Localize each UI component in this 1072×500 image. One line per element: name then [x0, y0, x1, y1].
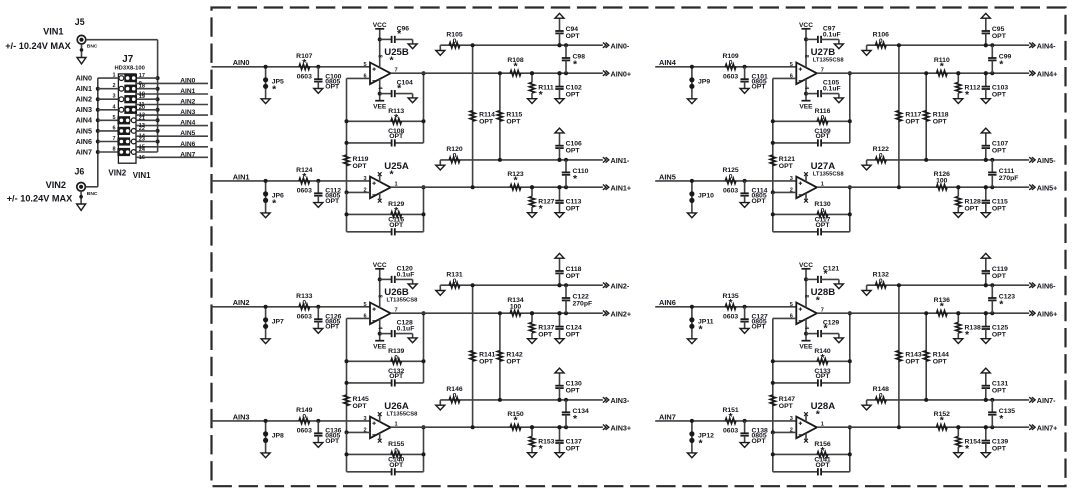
svg-text:0: 0: [879, 153, 883, 160]
ground: [555, 339, 564, 344]
svg-text:AIN7: AIN7: [659, 412, 676, 421]
svg-text:C107: C107: [992, 141, 1008, 148]
svg-text:U25A: U25A: [384, 161, 409, 172]
svg-text:OPT: OPT: [389, 373, 404, 380]
svg-text:JP10: JP10: [698, 192, 714, 199]
node AIN5: [659, 172, 676, 181]
svg-text:R145: R145: [353, 396, 369, 403]
svg-text:0: 0: [453, 153, 457, 160]
svg-text:OPT: OPT: [752, 324, 767, 331]
ground: [740, 329, 749, 334]
svg-text:7: 7: [112, 136, 115, 142]
svg-text:8: 8: [377, 55, 383, 58]
capacitor C95: [982, 18, 1007, 47]
svg-text:OPT: OPT: [479, 118, 494, 125]
svg-text:+/- 10.24V MAX: +/- 10.24V MAX: [5, 41, 71, 51]
svg-text:OPT: OPT: [779, 403, 794, 410]
svg-text:OPT: OPT: [965, 206, 980, 213]
svg-text:8: 8: [377, 295, 383, 298]
border frame: [212, 8, 1066, 487]
wire: [771, 190, 797, 231]
node AIN4: [659, 58, 677, 67]
junction: [530, 283, 562, 315]
svg-text:0.1uF: 0.1uF: [823, 86, 841, 93]
resistor R105: [440, 32, 603, 48]
svg-text:C139: C139: [992, 439, 1008, 446]
svg-text:R144: R144: [933, 351, 949, 358]
ground: [77, 44, 86, 64]
capacitor C140: [347, 457, 424, 476]
svg-text:OPT: OPT: [816, 373, 831, 380]
svg-text:OPT: OPT: [566, 388, 581, 395]
svg-text:AIN7: AIN7: [180, 151, 195, 158]
node AIN3 row: [180, 109, 195, 116]
resistor R128: [956, 185, 981, 213]
node VIN1 max: [5, 41, 71, 51]
capacitor C104: [378, 80, 413, 98]
resistor R132: [867, 272, 1030, 288]
ground: [740, 203, 749, 208]
svg-text:0: 0: [821, 207, 825, 214]
resistor R133: [296, 293, 312, 320]
svg-text:4: 4: [377, 326, 383, 329]
svg-text:5: 5: [790, 302, 793, 308]
svg-text:R121: R121: [779, 156, 795, 163]
capacitor C138: [740, 419, 768, 445]
capacitor C137: [555, 425, 582, 453]
earth: [555, 128, 564, 133]
svg-text:R142: R142: [506, 351, 522, 358]
VEE: [373, 341, 387, 351]
wire AIN5 input: [655, 180, 796, 182]
svg-text:0603: 0603: [723, 73, 738, 80]
node AIN7-: [1029, 396, 1056, 405]
jumper JP10: [689, 179, 714, 213]
svg-text:0: 0: [821, 114, 825, 121]
svg-text:17: 17: [139, 73, 145, 79]
svg-text:AIN3: AIN3: [76, 105, 92, 114]
resistor R145: [344, 381, 369, 433]
node AIN4-: [1029, 42, 1056, 51]
resistor R147: [770, 381, 795, 433]
node AIN5-: [1029, 156, 1056, 165]
resistor R137: [529, 311, 554, 339]
node AIN7: [659, 412, 676, 421]
wire AIN7 input: [655, 420, 796, 422]
capacitor C94: [555, 18, 580, 47]
svg-text:0603: 0603: [723, 313, 738, 320]
svg-text:20: 20: [139, 105, 145, 111]
svg-text:C95: C95: [992, 26, 1005, 33]
node AIN3+: [603, 424, 631, 433]
capacitor C116: [347, 217, 424, 236]
node AIN3-: [603, 396, 630, 405]
header J7 row 2: [98, 83, 208, 97]
jumper JP12: [689, 419, 714, 453]
resistor R115: [497, 71, 522, 162]
svg-text:AIN0-: AIN0-: [611, 42, 630, 51]
capacitor C134: [562, 398, 589, 429]
svg-text:OPT: OPT: [992, 92, 1007, 99]
svg-text:J7: J7: [122, 54, 133, 65]
ground: [687, 453, 696, 458]
capacitor C126: [314, 305, 342, 331]
connector J5: [75, 17, 98, 50]
svg-text:OPT: OPT: [752, 84, 767, 91]
ground: [862, 400, 871, 410]
svg-text:R143: R143: [905, 351, 921, 358]
resistor R131: [440, 272, 603, 288]
svg-text:VCC: VCC: [799, 22, 813, 29]
capacitor C109: [773, 128, 850, 147]
resistor R107: [296, 53, 312, 80]
svg-text:J5: J5: [75, 17, 85, 27]
VEE: [799, 341, 813, 351]
resistor R140: [771, 348, 852, 364]
earth: [981, 368, 990, 373]
header J7 row 7: [98, 136, 208, 150]
connector J7: [115, 54, 145, 163]
resistor R121: [770, 141, 795, 193]
svg-text:AIN5-: AIN5-: [1037, 156, 1056, 165]
svg-text:0603: 0603: [723, 427, 738, 434]
svg-text:AIN7-: AIN7-: [1037, 396, 1056, 405]
capacitor C99: [988, 43, 1011, 75]
svg-text:3: 3: [790, 176, 793, 182]
svg-text:0: 0: [729, 174, 733, 181]
header J7 row 3: [98, 94, 208, 108]
svg-text:6: 6: [112, 125, 115, 131]
ground: [862, 160, 871, 170]
svg-text:AIN3+: AIN3+: [611, 424, 632, 433]
capacitor C113: [555, 185, 581, 213]
svg-text:AIN6+: AIN6+: [1037, 310, 1058, 319]
resistor R154: [956, 425, 981, 455]
capacitor C123: [988, 283, 1015, 315]
ground: [954, 339, 963, 344]
svg-text:4: 4: [377, 86, 383, 89]
ground: [834, 44, 843, 49]
svg-text:U28A: U28A: [811, 401, 836, 412]
svg-text:C106: C106: [566, 141, 582, 148]
VCC: [799, 262, 813, 269]
svg-text:OPT: OPT: [933, 358, 948, 365]
svg-text:OPT: OPT: [992, 446, 1007, 453]
wire AIN0+: [391, 72, 603, 74]
svg-text:AIN4: AIN4: [180, 120, 195, 127]
wire: [773, 318, 797, 383]
svg-text:AIN1+: AIN1+: [611, 184, 632, 193]
wire: [848, 425, 852, 472]
svg-text:AIN0: AIN0: [180, 77, 195, 84]
VEE: [799, 101, 813, 111]
svg-text:R128: R128: [965, 199, 981, 206]
ground: [981, 339, 990, 344]
svg-text:OPT: OPT: [389, 462, 404, 469]
resistor R134: [507, 297, 523, 316]
header J7 row 8: [98, 147, 208, 161]
ground: [555, 213, 564, 218]
node AIN1+: [603, 184, 631, 193]
svg-text:OPT: OPT: [506, 118, 521, 125]
svg-text:OPT: OPT: [353, 403, 368, 410]
svg-text:5: 5: [790, 62, 793, 68]
connector J6: [75, 166, 98, 197]
svg-text:OPT: OPT: [752, 198, 767, 205]
op-amp U25B: [363, 29, 408, 101]
ground: [687, 99, 696, 104]
ground: [981, 99, 990, 104]
resistor R138: [956, 311, 981, 341]
resistor R146: [440, 386, 603, 402]
capacitor C97: [804, 25, 841, 44]
svg-text:C102: C102: [566, 85, 582, 92]
svg-text:AIN1: AIN1: [180, 88, 195, 95]
svg-text:OPT: OPT: [566, 92, 581, 99]
node AIN2 row: [180, 99, 195, 106]
svg-text:VCC: VCC: [799, 262, 813, 269]
svg-text:OPT: OPT: [566, 446, 581, 453]
ground: [77, 191, 86, 210]
wire: [345, 190, 371, 231]
ground: [834, 98, 843, 103]
svg-text:0: 0: [394, 354, 398, 361]
svg-text:OPT: OPT: [325, 198, 340, 205]
ground: [862, 45, 871, 55]
capacitor C128: [378, 320, 415, 338]
svg-text:100: 100: [936, 178, 948, 185]
resistor R139: [345, 348, 426, 364]
svg-text:0.1uF: 0.1uF: [397, 271, 415, 278]
svg-text:0: 0: [394, 447, 398, 454]
node AIN2 left: [76, 95, 92, 104]
resistor R148: [867, 386, 1030, 402]
svg-text:OPT: OPT: [816, 133, 831, 140]
ground: [954, 453, 963, 458]
earth: [981, 253, 990, 258]
svg-text:AIN7: AIN7: [76, 147, 92, 156]
node AIN0 left: [76, 74, 92, 83]
capacitor C112: [314, 179, 341, 205]
node AIN0 row: [180, 77, 195, 84]
svg-text:AIN3: AIN3: [233, 412, 250, 421]
node AIN7 left: [76, 147, 92, 156]
ground: [314, 329, 323, 334]
wire: [86, 39, 158, 41]
svg-text:+/- 10.24V MAX: +/- 10.24V MAX: [7, 193, 73, 203]
svg-text:VCC: VCC: [373, 22, 387, 29]
resistor R149: [296, 407, 312, 434]
svg-text:VEE: VEE: [799, 103, 813, 110]
svg-text:R117: R117: [905, 111, 921, 118]
wire VIN2 bus: [96, 78, 100, 187]
capacitor C105: [804, 80, 841, 98]
capacitor C124: [555, 311, 582, 339]
ground: [981, 453, 990, 458]
op-amp U26A: [363, 401, 418, 443]
svg-text:OPT: OPT: [506, 358, 521, 365]
svg-text:VCC: VCC: [373, 262, 387, 269]
junction: [956, 158, 988, 189]
resistor R116: [771, 108, 852, 124]
svg-text:3: 3: [363, 176, 366, 182]
svg-text:AIN1: AIN1: [76, 84, 92, 93]
earth: [555, 253, 564, 258]
junction: [956, 398, 988, 429]
svg-text:R114: R114: [479, 111, 495, 118]
capacitor C103: [982, 71, 1009, 99]
svg-text:AIN5: AIN5: [659, 172, 676, 181]
wire: [773, 78, 797, 142]
svg-text:AIN2: AIN2: [76, 95, 92, 104]
wire AIN0 input: [212, 66, 371, 68]
wire: [345, 430, 371, 471]
VCC: [373, 22, 387, 29]
capacitor C120: [378, 265, 415, 284]
svg-text:24: 24: [139, 147, 146, 153]
svg-text:AIN7+: AIN7+: [1037, 424, 1058, 433]
capacitor C130: [555, 373, 582, 402]
resistor R119: [344, 141, 369, 193]
svg-text:2: 2: [112, 83, 115, 89]
node AIN6-: [1029, 282, 1056, 291]
ground: [408, 44, 417, 49]
node AIN6 row: [180, 141, 195, 148]
capacitor C125: [982, 311, 1009, 339]
node AIN1-: [603, 156, 630, 165]
ground: [436, 285, 445, 295]
wire: [422, 311, 426, 383]
ground: [314, 203, 323, 208]
earth: [555, 13, 564, 18]
node AIN7 row: [180, 151, 195, 158]
svg-text:8: 8: [803, 55, 809, 58]
svg-text:OPT: OPT: [479, 358, 494, 365]
capacitor C96: [378, 25, 413, 44]
ground: [555, 453, 564, 458]
svg-text:R118: R118: [933, 111, 949, 118]
op-amp U28A: [790, 401, 835, 443]
wire AIN7+: [817, 426, 1029, 428]
ground: [261, 213, 270, 218]
op-amp U27B: [790, 29, 845, 101]
wire: [347, 78, 371, 142]
ground: [314, 89, 323, 94]
svg-text:AIN5: AIN5: [76, 126, 92, 135]
ground: [555, 99, 564, 104]
svg-text:3: 3: [790, 416, 793, 422]
VCC: [799, 22, 813, 29]
svg-text:C125: C125: [992, 325, 1008, 332]
node AIN4 left: [76, 116, 92, 125]
resistor R109: [722, 53, 738, 80]
svg-text:LT1355CS8: LT1355CS8: [813, 171, 845, 177]
ground: [834, 338, 843, 343]
ground: [314, 443, 323, 448]
wire: [422, 71, 426, 143]
capacitor C132: [347, 368, 424, 387]
svg-text:0603: 0603: [723, 187, 738, 194]
svg-text:OPT: OPT: [353, 163, 368, 170]
node AIN6: [659, 298, 676, 307]
capacitor C106: [555, 133, 582, 162]
capacitor C135: [988, 398, 1015, 429]
svg-text:OPT: OPT: [779, 163, 794, 170]
node VIN1 label: [133, 171, 151, 180]
svg-text:LT1355CS8: LT1355CS8: [387, 297, 419, 303]
svg-text:OPT: OPT: [905, 118, 920, 125]
svg-text:AIN4-: AIN4-: [1037, 42, 1056, 51]
node AIN0-: [603, 42, 630, 51]
node AIN7+: [1029, 424, 1057, 433]
resistor R127: [529, 185, 554, 215]
capacitor C117: [773, 217, 850, 236]
capacitor C102: [555, 71, 582, 99]
svg-text:5: 5: [112, 115, 115, 121]
wire: [422, 185, 426, 232]
svg-text:AIN0: AIN0: [76, 74, 92, 83]
node AIN4+: [1029, 70, 1057, 79]
header J7 row 4: [98, 104, 208, 118]
ground: [862, 285, 871, 295]
svg-text:0: 0: [453, 38, 457, 45]
resistor R141: [470, 283, 496, 429]
svg-text:R119: R119: [353, 156, 369, 163]
resistor R152: [934, 411, 950, 430]
svg-text:270pF: 270pF: [573, 301, 593, 308]
svg-text:AIN6: AIN6: [180, 141, 195, 148]
resistor R151: [722, 407, 738, 434]
wire: [848, 71, 852, 143]
node AIN1 left: [76, 84, 92, 93]
ground: [528, 453, 537, 458]
svg-text:AIN3: AIN3: [180, 109, 195, 116]
svg-text:OPT: OPT: [992, 332, 1007, 339]
header J7 row 1: [98, 73, 208, 87]
svg-text:0: 0: [302, 300, 306, 307]
svg-text:R141: R141: [479, 351, 495, 358]
ground: [436, 45, 445, 55]
svg-text:AIN0: AIN0: [233, 58, 250, 67]
resistor R142: [497, 311, 523, 402]
svg-text:C115: C115: [992, 199, 1008, 206]
svg-text:AIN5+: AIN5+: [1037, 184, 1058, 193]
wire VIN1 bus: [156, 40, 160, 152]
svg-text:270pF: 270pF: [999, 175, 1019, 182]
svg-text:AIN4: AIN4: [76, 116, 92, 125]
resistor R111: [529, 71, 554, 101]
svg-text:0603: 0603: [297, 187, 312, 194]
ground: [834, 284, 843, 289]
svg-text:AIN2: AIN2: [233, 298, 250, 307]
svg-text:0: 0: [729, 60, 733, 67]
capacitor C136: [314, 419, 342, 445]
svg-text:OPT: OPT: [325, 84, 340, 91]
resistor R143: [896, 283, 922, 429]
capacitor C118: [555, 258, 581, 287]
svg-text:OPT: OPT: [992, 273, 1007, 280]
svg-text:0603: 0603: [297, 313, 312, 320]
node AIN2: [233, 298, 250, 307]
jumper JP5: [263, 65, 284, 99]
svg-text:23: 23: [139, 137, 145, 143]
node AIN0: [233, 58, 250, 67]
ground: [408, 284, 417, 289]
svg-text:C131: C131: [992, 381, 1008, 388]
capacitor C100: [314, 65, 342, 91]
svg-text:AIN2+: AIN2+: [611, 310, 632, 319]
svg-text:C130: C130: [566, 381, 582, 388]
